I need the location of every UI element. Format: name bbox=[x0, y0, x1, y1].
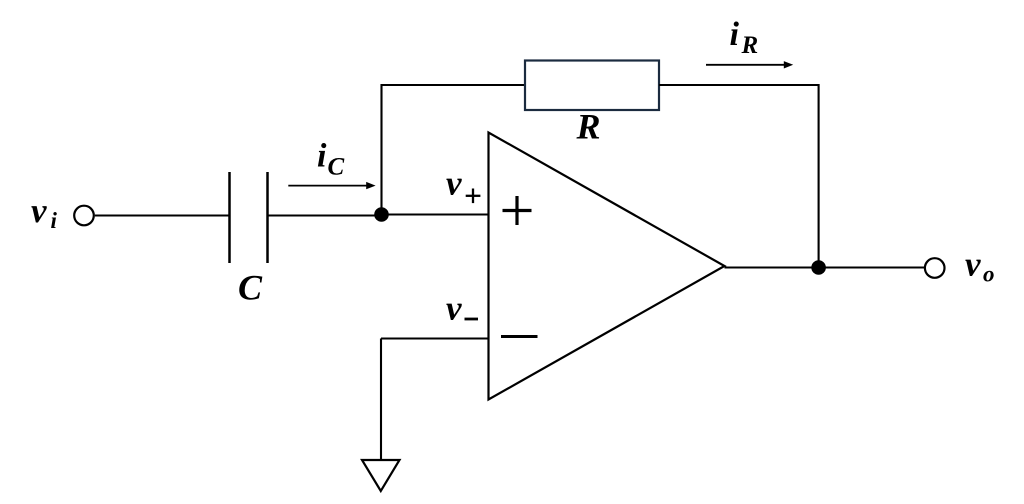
current arrow i_R bbox=[706, 61, 793, 68]
label v_i bbox=[31, 191, 58, 233]
terminal vo (open circle) bbox=[925, 258, 945, 278]
svg-text:i: i bbox=[730, 16, 740, 53]
current arrow i_C bbox=[288, 182, 375, 189]
wire vi to capacitor bbox=[95, 214, 230, 216]
svg-text:C: C bbox=[238, 268, 263, 308]
label v_+ bbox=[446, 164, 480, 204]
svg-text:v: v bbox=[965, 245, 981, 284]
svg-text:v: v bbox=[446, 289, 462, 328]
wire feedback top-left to resistor bbox=[381, 84, 526, 86]
svg-text:v: v bbox=[31, 191, 47, 230]
wire junction to op-amp + input bbox=[382, 213, 489, 215]
wire v- input horizontal bbox=[381, 337, 489, 339]
op-amp - input marker bbox=[501, 335, 538, 338]
wire resistor to right corner bbox=[659, 84, 819, 86]
op-amp U1 triangle bbox=[489, 133, 725, 400]
label v_o bbox=[965, 245, 995, 287]
junction node dot bbox=[374, 207, 389, 222]
svg-text:C: C bbox=[328, 154, 345, 181]
svg-text:i: i bbox=[317, 138, 327, 175]
capacitor C bbox=[230, 172, 268, 263]
wire capacitor to junction bbox=[268, 214, 382, 216]
svg-text:R: R bbox=[741, 32, 759, 59]
wire op-amp output to terminal bbox=[725, 266, 925, 268]
wire junction up to feedback (vertical) bbox=[380, 84, 382, 215]
label v_- bbox=[446, 289, 478, 328]
op-amp + input marker bbox=[503, 196, 532, 225]
svg-text:i: i bbox=[51, 208, 58, 233]
svg-text:o: o bbox=[983, 262, 995, 287]
label i_C bbox=[317, 138, 345, 181]
output node dot bbox=[811, 260, 826, 275]
wire feedback right vertical down to output node bbox=[818, 84, 820, 268]
label i_R bbox=[730, 16, 759, 59]
ground symbol bbox=[362, 460, 400, 491]
wire v- down to ground bbox=[380, 339, 382, 461]
svg-text:v: v bbox=[446, 164, 462, 203]
svg-text:R: R bbox=[576, 107, 601, 147]
resistor R bbox=[525, 61, 659, 111]
terminal vi (open circle) bbox=[74, 206, 94, 226]
